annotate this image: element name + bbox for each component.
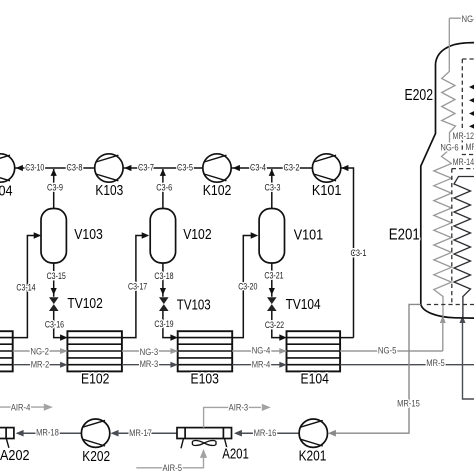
svg-text:C3-17: C3-17 [128, 281, 147, 291]
svg-text:TV104: TV104 [286, 297, 321, 313]
svg-text:NG-3: NG-3 [140, 347, 159, 357]
svg-text:TV102: TV102 [67, 296, 102, 312]
svg-text:MR-12: MR-12 [453, 131, 474, 141]
svg-text:NG-4: NG-4 [252, 346, 271, 356]
svg-text:K201: K201 [299, 449, 327, 465]
svg-text:K103: K103 [95, 183, 123, 199]
svg-text:E202: E202 [405, 87, 434, 104]
svg-text:V102: V102 [183, 227, 211, 243]
svg-text:C3-9: C3-9 [47, 183, 63, 193]
svg-text:MR-15: MR-15 [397, 398, 420, 408]
svg-text:MR-18: MR-18 [36, 427, 59, 437]
svg-text:C3-20: C3-20 [238, 281, 257, 291]
svg-text:MR-3: MR-3 [140, 359, 159, 369]
svg-text:NG-5: NG-5 [378, 346, 397, 356]
svg-text:V103: V103 [74, 227, 103, 243]
svg-text:MR-17: MR-17 [129, 428, 152, 438]
svg-text:C3-21: C3-21 [264, 270, 283, 280]
svg-text:MR-5: MR-5 [426, 358, 445, 368]
svg-text:TV103: TV103 [177, 298, 211, 314]
svg-text:K202: K202 [82, 449, 110, 465]
svg-text:C3-6: C3-6 [156, 183, 172, 193]
svg-text:C3-2: C3-2 [284, 162, 300, 172]
svg-text:K101: K101 [312, 183, 342, 199]
svg-text:NG-6: NG-6 [440, 142, 458, 152]
svg-text:MR-13: MR-13 [466, 142, 474, 152]
svg-text:NG-2: NG-2 [30, 346, 49, 356]
svg-text:C3-16: C3-16 [45, 320, 64, 330]
svg-text:C3-14: C3-14 [16, 282, 35, 292]
svg-text:MR-16: MR-16 [254, 428, 277, 438]
svg-text:C3-8: C3-8 [67, 162, 83, 172]
svg-text:E103: E103 [191, 371, 219, 387]
svg-text:MR-2: MR-2 [31, 359, 50, 369]
svg-text:C3-7: C3-7 [138, 162, 154, 172]
svg-text:C3-4: C3-4 [250, 162, 266, 172]
svg-text:C3-22: C3-22 [265, 320, 284, 330]
svg-text:NG-8: NG-8 [462, 14, 474, 24]
svg-text:A202: A202 [0, 448, 30, 464]
svg-text:E102: E102 [81, 371, 109, 387]
svg-text:K102: K102 [203, 183, 232, 199]
svg-text:MR-14: MR-14 [453, 157, 474, 167]
svg-text:AIR-4: AIR-4 [11, 403, 31, 413]
svg-text:AIR-3: AIR-3 [229, 403, 249, 413]
svg-text:C3-1: C3-1 [351, 248, 367, 258]
svg-text:C3-10: C3-10 [25, 162, 44, 172]
svg-text:E201: E201 [389, 227, 420, 244]
svg-text:C3-3: C3-3 [265, 183, 281, 193]
svg-text:E104: E104 [301, 371, 329, 387]
svg-text:A201: A201 [222, 446, 249, 462]
svg-text:C3-18: C3-18 [154, 271, 173, 281]
svg-text:K104: K104 [0, 184, 13, 200]
svg-text:AIR-5: AIR-5 [162, 463, 182, 473]
svg-text:V101: V101 [294, 228, 323, 244]
svg-text:C3-5: C3-5 [177, 162, 193, 172]
svg-text:C3-15: C3-15 [47, 271, 66, 281]
svg-text:MR-4: MR-4 [252, 359, 271, 369]
svg-text:C3-19: C3-19 [154, 319, 173, 329]
